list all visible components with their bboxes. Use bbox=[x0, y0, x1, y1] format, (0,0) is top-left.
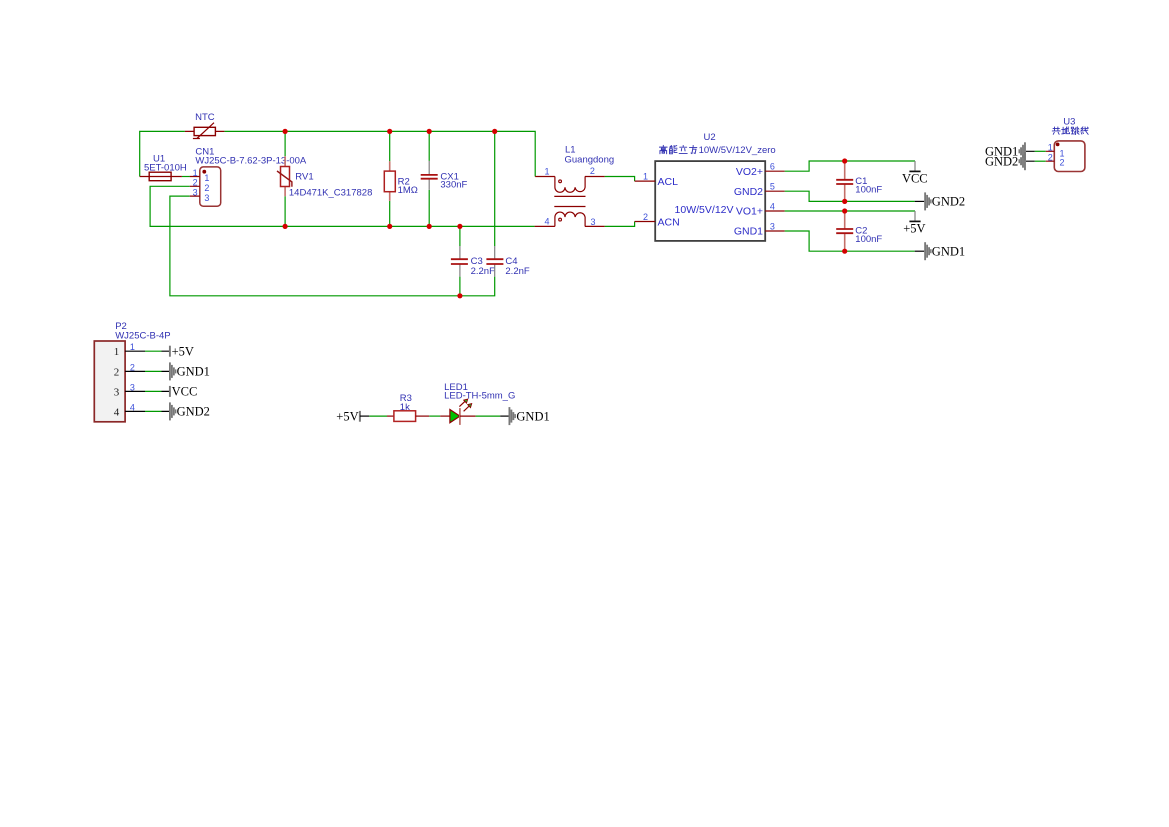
svg-text:3: 3 bbox=[114, 386, 120, 398]
svg-text:WJ25C-B-7.62-3P-13-00A: WJ25C-B-7.62-3P-13-00A bbox=[195, 155, 307, 166]
svg-text:GND1: GND1 bbox=[516, 409, 549, 423]
svg-text:NTC: NTC bbox=[195, 112, 215, 123]
svg-text:4: 4 bbox=[770, 202, 775, 212]
svg-text:U2: U2 bbox=[704, 132, 716, 143]
svg-text:RV1: RV1 bbox=[295, 172, 313, 183]
svg-text:GND2: GND2 bbox=[177, 405, 210, 419]
svg-text:2: 2 bbox=[643, 212, 648, 222]
svg-text:+5V: +5V bbox=[903, 222, 925, 236]
svg-text:Guangdong: Guangdong bbox=[565, 154, 615, 165]
svg-text:14D471K_C317828: 14D471K_C317828 bbox=[289, 188, 372, 199]
svg-text:6: 6 bbox=[770, 162, 775, 172]
svg-text:1k: 1k bbox=[400, 402, 410, 413]
svg-text:GND2: GND2 bbox=[985, 155, 1018, 169]
svg-text:GND2: GND2 bbox=[734, 186, 763, 198]
svg-text:+5V: +5V bbox=[336, 409, 358, 423]
svg-text:2: 2 bbox=[114, 366, 120, 378]
svg-text:1: 1 bbox=[204, 173, 209, 183]
svg-text:GND1: GND1 bbox=[734, 226, 763, 238]
svg-text:4: 4 bbox=[130, 402, 135, 412]
svg-text:GND1: GND1 bbox=[932, 245, 965, 259]
svg-text:2: 2 bbox=[590, 166, 595, 176]
svg-text:VO1+: VO1+ bbox=[736, 206, 763, 218]
svg-text:VCC: VCC bbox=[172, 385, 198, 399]
svg-text:2: 2 bbox=[204, 183, 209, 193]
svg-text:1: 1 bbox=[544, 167, 549, 177]
svg-text:1: 1 bbox=[193, 168, 198, 178]
svg-text:3: 3 bbox=[204, 193, 209, 203]
svg-text:4: 4 bbox=[544, 217, 549, 227]
svg-text:330nF: 330nF bbox=[440, 180, 467, 191]
svg-text:10W/5V/12V_zero: 10W/5V/12V_zero bbox=[699, 145, 776, 156]
svg-text:1: 1 bbox=[130, 342, 135, 352]
svg-text:10W/5V/12V: 10W/5V/12V bbox=[675, 204, 734, 216]
svg-text:VO2+: VO2+ bbox=[736, 166, 763, 178]
svg-text:2.2nF: 2.2nF bbox=[471, 266, 495, 277]
svg-text:5: 5 bbox=[770, 182, 775, 192]
svg-text:GND1: GND1 bbox=[177, 365, 210, 379]
svg-text:1MΩ: 1MΩ bbox=[398, 185, 418, 196]
svg-text:3: 3 bbox=[193, 188, 198, 198]
svg-text:VCC: VCC bbox=[902, 172, 928, 186]
svg-text:U3: U3 bbox=[1063, 117, 1075, 128]
svg-text:3: 3 bbox=[591, 217, 596, 227]
svg-text:2: 2 bbox=[1060, 158, 1065, 168]
svg-text:3: 3 bbox=[130, 382, 135, 392]
svg-text:2.2nF: 2.2nF bbox=[505, 266, 529, 277]
svg-text:100nF: 100nF bbox=[855, 185, 882, 196]
svg-text:ACL: ACL bbox=[658, 176, 679, 188]
svg-text:1: 1 bbox=[114, 346, 120, 358]
svg-text:4: 4 bbox=[114, 406, 120, 418]
svg-text:1: 1 bbox=[1048, 142, 1053, 152]
svg-text:100nF: 100nF bbox=[855, 234, 882, 245]
svg-text:LED-TH-5mm_G: LED-TH-5mm_G bbox=[444, 391, 515, 402]
svg-text:2: 2 bbox=[1048, 152, 1053, 162]
svg-text:2: 2 bbox=[193, 178, 198, 188]
svg-text:+5V: +5V bbox=[172, 344, 194, 358]
svg-text:2: 2 bbox=[130, 362, 135, 372]
svg-text:WJ25C-B-4P: WJ25C-B-4P bbox=[115, 331, 170, 342]
svg-text:1: 1 bbox=[643, 172, 648, 182]
svg-text:3: 3 bbox=[770, 222, 775, 232]
svg-text:GND2: GND2 bbox=[932, 195, 965, 209]
svg-text:ACN: ACN bbox=[658, 216, 680, 228]
